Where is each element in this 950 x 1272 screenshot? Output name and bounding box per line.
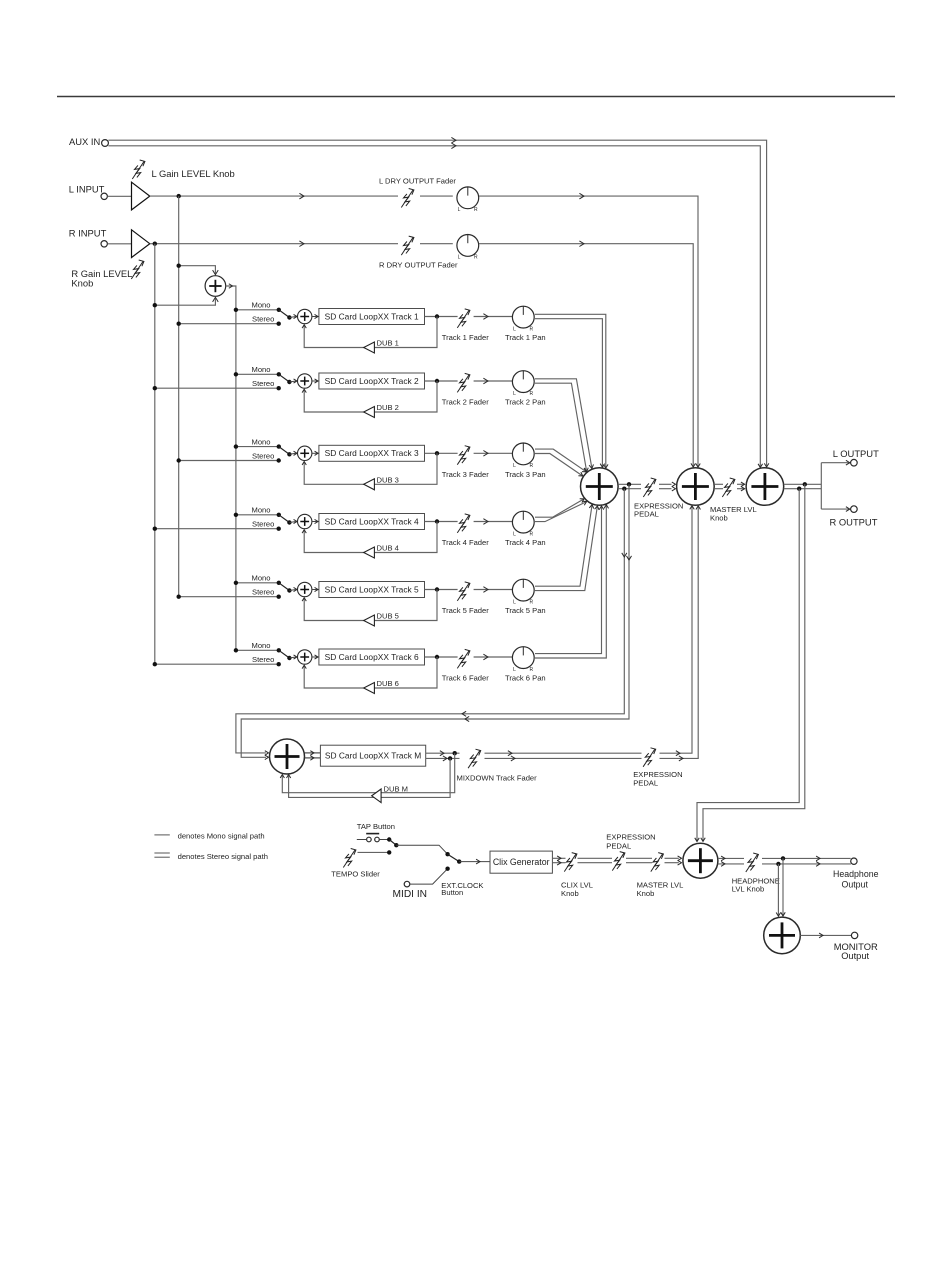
svg-text:Mono: Mono: [252, 365, 271, 374]
node Track 6 Pan label: [505, 674, 546, 683]
flow arrows clix out: [557, 856, 561, 865]
arrowheads pan 2 into U1: [584, 464, 594, 472]
node Stereo label track 3: [252, 451, 274, 460]
arrowheads pan 5 into U1: [589, 504, 599, 510]
junction switch pivot track 5: [287, 588, 291, 592]
junction mixdown out upper: [453, 751, 457, 755]
wire tempo common to clock switch: [396, 845, 447, 854]
flow arrow on L dry line: [299, 193, 304, 199]
switch arm track 3: [279, 447, 290, 455]
svg-text:SD Card LoopXX Track 1: SD Card LoopXX Track 1: [325, 311, 419, 321]
wire fader 5 to pan: [474, 589, 513, 591]
block SD Card LoopXX Track 1: [319, 309, 425, 325]
node Mono label track 2: [252, 365, 271, 374]
arrowhead into box track 6: [315, 655, 318, 659]
flow arrows U4 out: [721, 856, 725, 866]
wire fader 1 to pan: [474, 316, 513, 318]
svg-text:R: R: [530, 599, 534, 605]
junction stereo bus track 3: [177, 458, 181, 462]
svg-text:TEMPO Slider: TEMPO Slider: [331, 870, 380, 879]
svg-text:L: L: [513, 463, 516, 469]
arrowheads DUB M into sum: [280, 775, 291, 778]
contact stereo track 6: [277, 662, 281, 666]
node DUB 4 label: [377, 544, 399, 553]
wire DUB M feedback pair: [282, 753, 454, 797]
summing node U2 dry mix: [677, 468, 715, 506]
switch arm track 5: [279, 583, 290, 591]
node Track 2 Fader label: [442, 398, 489, 407]
junction mono bus track 1: [234, 308, 238, 312]
svg-text:Output: Output: [841, 951, 869, 961]
contact TEMPO: [387, 850, 391, 854]
wire tempo to contact: [358, 851, 390, 853]
wire box 6 to fader: [425, 656, 458, 658]
svg-text:Track 6 Pan: Track 6 Pan: [505, 674, 546, 683]
wire box 2 to fader: [425, 380, 458, 382]
arrowheads into U6 top: [776, 912, 785, 916]
node Stereo label track 4: [252, 520, 274, 529]
wire R dry line: [150, 243, 453, 245]
contact mono track 1: [277, 308, 281, 312]
wire R dry to U2 top: [479, 244, 693, 467]
contact stereo track 5: [277, 595, 281, 599]
svg-text:Output: Output: [842, 879, 869, 889]
flow arrow monitor out: [819, 933, 823, 938]
wire DUB 3 feedback: [304, 453, 437, 484]
wire R bus to mono sum bottom: [155, 299, 216, 306]
junction stereo bus track 4: [153, 527, 157, 531]
pedal EXPRESSION mixdown symbol: [643, 748, 656, 767]
junction main pair upper: [627, 482, 631, 486]
wire pan 1 pair to U1: [535, 314, 606, 468]
summing node U1 track mix: [581, 468, 619, 506]
wire U3 output pair to output split: [784, 463, 851, 509]
wire DUB 2 feedback: [304, 381, 437, 412]
junction headphone lower: [776, 862, 780, 866]
node EXPRESSION PEDAL main label: [634, 501, 683, 518]
arrowhead DUB 2 into sum: [302, 389, 306, 392]
svg-text:Track 1 Pan: Track 1 Pan: [505, 333, 546, 342]
node L OUTPUT label: [833, 448, 879, 459]
arrowheads into U4 left: [678, 856, 682, 865]
node Track 1 Pan label: [505, 333, 546, 342]
node Mono label track 3: [252, 437, 271, 446]
svg-text:MIXDOWN Track Fader: MIXDOWN Track Fader: [457, 773, 538, 782]
contact stereo track 4: [277, 527, 281, 531]
wire L bus to mono sum top: [179, 266, 216, 274]
node Track 4 Fader label: [442, 538, 489, 547]
legend stereo text: [178, 852, 268, 861]
arrowheads pan 3 into U1: [578, 468, 587, 478]
button TAP symbol: [357, 834, 389, 842]
svg-text:Mono: Mono: [252, 641, 271, 650]
wire sum to box track 1: [312, 316, 319, 318]
arrowhead into box track 4: [315, 519, 318, 523]
svg-text:DUB 3: DUB 3: [377, 475, 399, 484]
svg-text:Stereo: Stereo: [252, 520, 274, 529]
wire L bus vertical: [178, 196, 180, 597]
junction box 2 output: [435, 379, 439, 383]
wire mixdown fader to pedal pair: [485, 753, 642, 758]
wire midi to clock switch: [410, 869, 448, 884]
pot L DRY pan: [457, 187, 479, 213]
arrowhead into track sum 6: [294, 655, 297, 659]
svg-text:Knob: Knob: [71, 278, 93, 289]
wire sum to box track 2: [312, 380, 319, 382]
arrowhead into track sum 1: [294, 314, 297, 318]
svg-text:Track 1 Fader: Track 1 Fader: [442, 333, 489, 342]
flow arrow track 1 fader out: [483, 314, 488, 320]
node Track 3 Pan label: [505, 470, 546, 479]
jack MIDI IN: [404, 881, 410, 887]
pot L Gain LEVEL Knob symbol: [132, 160, 145, 179]
node Track 3 Fader label: [442, 470, 489, 479]
wire DUB 6 feedback: [304, 657, 437, 688]
jack L INPUT: [101, 193, 107, 199]
node Track 5 Fader label: [442, 606, 489, 615]
junction box 5 output: [435, 587, 439, 591]
contact mono track 6: [277, 648, 281, 652]
wire pan 6 pair to U1: [535, 505, 606, 658]
wire pan 5 pair to U1: [535, 505, 597, 591]
svg-text:Track 4 Fader: Track 4 Fader: [442, 538, 489, 547]
wire stereo feed track 2: [155, 387, 279, 389]
junction switch pivot track 4: [287, 520, 291, 524]
svg-text:L: L: [513, 391, 516, 397]
junction mono bus track 2: [234, 372, 238, 376]
svg-text:R: R: [474, 207, 478, 213]
jack R INPUT: [101, 241, 107, 247]
junction switch pivot track 2: [287, 380, 291, 384]
wire mono feed track 1: [236, 309, 279, 311]
fader L DRY OUTPUT symbol: [401, 189, 414, 208]
wire clock to clix generator: [459, 861, 490, 863]
node MASTER LVL main label: [710, 505, 757, 523]
svg-text:L DRY OUTPUT Fader: L DRY OUTPUT Fader: [379, 177, 456, 186]
junction mono bus track 3: [234, 444, 238, 448]
jack Headphone Output: [851, 858, 857, 864]
svg-text:AUX IN: AUX IN: [69, 136, 100, 147]
flow arrow track 5 fader out: [483, 587, 488, 593]
wire stereo feed track 3: [179, 460, 279, 462]
wire sum to box track 3: [312, 452, 319, 454]
arrowheads into U4 top: [695, 838, 705, 842]
wire pan 3 pair to U1: [535, 449, 586, 476]
svg-text:PEDAL: PEDAL: [634, 510, 659, 519]
jack AUX IN: [102, 140, 109, 147]
block SD Card LoopXX Track M: [320, 745, 425, 766]
wire fader 2 to pan: [474, 380, 513, 382]
pot CLIX LVL symbol: [564, 853, 577, 872]
junction clock common: [457, 859, 461, 863]
wire pivot to sum track 6: [289, 657, 296, 658]
svg-text:Button: Button: [441, 888, 463, 897]
pot R Gain LEVEL Knob symbol: [131, 260, 144, 279]
svg-text:Track 2 Pan: Track 2 Pan: [505, 398, 546, 407]
svg-text:EXPRESSION: EXPRESSION: [606, 832, 655, 841]
flow arrow L dry after pan: [579, 193, 584, 199]
junction stereo bus track 6: [153, 662, 157, 666]
svg-text:Track 4 Pan: Track 4 Pan: [505, 538, 546, 547]
fader Track 1 symbol: [457, 309, 470, 328]
wire mixdown pair up to U2 bottom: [660, 506, 699, 759]
node AUX IN label: [69, 136, 100, 147]
wire mono feed track 3: [236, 446, 279, 448]
contact internal clock: [445, 852, 449, 856]
junction headphone upper: [781, 856, 785, 860]
amp DUB 1: [364, 342, 375, 353]
arrowheads into master sum U3 top: [758, 463, 769, 467]
wire mono feed track 5: [236, 582, 279, 584]
svg-text:SD Card LoopXX Track 6: SD Card LoopXX Track 6: [325, 652, 419, 662]
node EXPRESSION PEDAL clix label: [606, 832, 655, 850]
amp DUB 3: [364, 479, 375, 490]
node Track 4 Pan label: [505, 538, 546, 547]
junction switch pivot track 1: [287, 315, 291, 319]
arrowhead into L OUTPUT jack: [846, 460, 850, 465]
pot MASTER LVL clix symbol: [651, 853, 664, 872]
node DUB 1 label: [377, 339, 399, 348]
svg-text:L: L: [513, 599, 516, 605]
arrowhead into clix generator: [476, 859, 480, 864]
amp R input gain: [132, 230, 150, 258]
flow arrow R dry after pan: [579, 241, 584, 247]
svg-text:SD Card LoopXX Track 4: SD Card LoopXX Track 4: [325, 516, 419, 526]
summing node U3 master: [746, 468, 784, 506]
svg-text:L: L: [513, 667, 516, 673]
wire sum to box track 6: [312, 656, 319, 658]
svg-text:denotes Stereo signal path: denotes Stereo signal path: [178, 852, 268, 861]
wire U4 out pair: [718, 858, 851, 864]
amp DUB 2: [364, 407, 375, 418]
arrowhead into box track 2: [315, 379, 318, 383]
wire L dry line: [150, 195, 453, 197]
node DUB 6 label: [377, 679, 399, 688]
wire pan 4 pair to U1: [535, 499, 587, 522]
node R OUTPUT label: [830, 517, 878, 528]
junction mono bus track 6: [234, 648, 238, 652]
wire box 5 to fader: [425, 589, 458, 591]
svg-text:SD Card LoopXX Track 3: SD Card LoopXX Track 3: [325, 448, 419, 458]
node MASTER LVL clix label: [637, 881, 684, 898]
svg-text:Track 5 Pan: Track 5 Pan: [505, 606, 546, 615]
junction box 6 output: [435, 655, 439, 659]
summing node U0 L+R mono: [205, 276, 226, 297]
flow arrows mixdown mid pair: [508, 751, 515, 761]
junction switch pivot track 6: [287, 656, 291, 660]
node DUB 5 label: [377, 612, 399, 621]
block SD Card LoopXX Track 4: [319, 514, 425, 530]
arrowhead DUB 4 into sum: [302, 530, 306, 533]
flow arrow mono sum output: [229, 284, 233, 288]
pot Track 2 Pan: [512, 371, 534, 397]
svg-text:L: L: [513, 326, 516, 332]
fader Track 3 symbol: [457, 446, 470, 465]
wire mono feed track 4: [236, 514, 279, 516]
wire clix out pair: [552, 858, 678, 862]
wire box 3 to fader: [425, 452, 458, 454]
node DUB M label: [384, 784, 408, 793]
node Mono label track 1: [252, 301, 271, 310]
svg-text:R DRY OUTPUT Fader: R DRY OUTPUT Fader: [379, 260, 458, 269]
svg-text:L Gain LEVEL Knob: L Gain LEVEL Knob: [152, 168, 235, 179]
svg-text:Stereo: Stereo: [252, 655, 274, 664]
svg-text:Mono: Mono: [252, 506, 271, 515]
node Stereo label track 2: [252, 379, 274, 388]
svg-text:TAP Button: TAP Button: [357, 822, 395, 831]
svg-text:MIDI IN: MIDI IN: [393, 889, 428, 900]
node R Gain LEVEL label: [71, 268, 132, 289]
pot R DRY pan: [457, 235, 479, 261]
wire box 1 to fader: [425, 316, 458, 318]
svg-text:L: L: [513, 531, 516, 537]
summing node track 5: [298, 582, 312, 596]
svg-text:R: R: [530, 531, 534, 537]
pot Track 4 Pan: [512, 511, 534, 537]
svg-text:Clix Generator: Clix Generator: [493, 857, 550, 867]
junction stereo bus track 2: [153, 386, 157, 390]
flow arrows on AUX pair: [451, 137, 456, 148]
summing node track 3: [298, 446, 312, 460]
svg-text:R INPUT: R INPUT: [69, 227, 107, 238]
fader Track 4 symbol: [457, 514, 470, 533]
contact TAP: [387, 837, 391, 841]
node Mono label track 5: [252, 574, 271, 583]
contact mono track 2: [277, 372, 281, 376]
node MIXDOWN Track Fader label: [457, 773, 538, 782]
block SD Card LoopXX Track 2: [319, 373, 425, 389]
flow arrows mixdown to U2: [676, 751, 683, 761]
node DUB 2 label: [377, 403, 399, 412]
arrowheads into U2: [672, 482, 676, 491]
arrowhead into mono sum top: [213, 270, 219, 275]
arrowheads pan 6 into U1: [599, 505, 608, 510]
switch arm tap/tempo: [389, 840, 396, 846]
legend stereo lines: [154, 853, 169, 857]
pot MASTER LVL main symbol: [722, 478, 735, 497]
switch arm ext clock: [448, 854, 460, 861]
wire stereo feed track 4: [155, 528, 279, 530]
node EXPRESSION PEDAL mixdown label: [633, 770, 682, 787]
arrowhead L dry into U2: [696, 464, 700, 468]
block SD Card LoopXX Track 3: [319, 445, 425, 461]
wire stereo feed track 6: [155, 663, 279, 665]
arrowheads into U2 bottom: [690, 506, 701, 510]
arrowhead DUB 3 into sum: [302, 462, 306, 465]
wire L dry to U2 top: [479, 196, 698, 467]
jack R OUTPUT: [851, 506, 858, 513]
wire pivot to sum track 5: [289, 590, 296, 591]
junction L bus at mono sum feed: [177, 264, 181, 268]
svg-text:Track 2 Fader: Track 2 Fader: [442, 398, 489, 407]
pot Track 5 Pan: [512, 579, 534, 605]
node CLIX LVL Knob label: [561, 881, 593, 898]
wire DUB 4 feedback: [304, 522, 437, 553]
wire mixdown sum to box pair: [305, 753, 321, 758]
svg-text:L OUTPUT: L OUTPUT: [833, 448, 879, 459]
junction switch pivot track 3: [287, 452, 291, 456]
flow arrows headphone out: [816, 856, 820, 866]
amp L input gain: [132, 182, 150, 210]
switch arm track 6: [279, 650, 290, 658]
wire box 4 to fader: [425, 521, 458, 523]
node Stereo label track 5: [252, 588, 274, 597]
arrowhead DUB 1 into sum: [302, 325, 306, 328]
legend mono line: [154, 834, 169, 836]
wire U1 out pair down-left to mixdown sum: [236, 484, 629, 757]
svg-text:R: R: [530, 463, 534, 469]
amp DUB 5: [364, 615, 375, 626]
wire pivot to sum track 2: [289, 381, 296, 382]
arrowhead into track sum 3: [294, 451, 297, 455]
node Track 6 Fader label: [442, 674, 489, 683]
block Clix Generator: [490, 851, 552, 873]
svg-text:Stereo: Stereo: [252, 379, 274, 388]
svg-text:Track 3 Pan: Track 3 Pan: [505, 470, 546, 479]
junction tap/tempo common: [394, 843, 398, 847]
junction mixdown out lower: [448, 756, 452, 760]
svg-text:Stereo: Stereo: [252, 315, 274, 324]
fader MIXDOWN Track symbol: [468, 749, 481, 768]
junction R bus at mono sum feed: [153, 303, 157, 307]
node Mono label track 4: [252, 506, 271, 515]
pot Track 1 Pan: [512, 306, 534, 332]
svg-text:denotes Mono signal path: denotes Mono signal path: [178, 831, 265, 840]
svg-text:Knob: Knob: [637, 889, 655, 898]
switch arm track 2: [279, 374, 290, 382]
node MONITOR Output label: [834, 941, 878, 961]
svg-text:SD Card LoopXX Track 5: SD Card LoopXX Track 5: [325, 584, 419, 594]
summing node track 4: [298, 514, 312, 528]
arrowhead DUB 5 into sum: [302, 598, 306, 601]
svg-text:Knob: Knob: [710, 514, 728, 523]
svg-text:PEDAL: PEDAL: [633, 778, 658, 787]
block SD Card LoopXX Track 5: [319, 582, 425, 598]
svg-text:Mono: Mono: [252, 574, 271, 583]
arrowhead R dry into U2: [691, 463, 695, 467]
svg-text:Stereo: Stereo: [252, 451, 274, 460]
node L DRY OUTPUT Fader label: [379, 177, 456, 186]
arrowhead into R OUTPUT jack: [846, 507, 850, 512]
arrowhead into mono sum bottom: [213, 297, 219, 302]
contact mono track 4: [277, 513, 281, 517]
wire pivot to sum track 4: [289, 522, 296, 523]
fader Track 5 symbol: [457, 582, 470, 601]
node Track 1 Fader label: [442, 333, 489, 342]
flow arrows mixdown box out: [440, 751, 447, 761]
junction box 3 output: [435, 451, 439, 455]
junction R amp output: [153, 242, 157, 246]
pot Track 3 Pan: [512, 443, 534, 469]
junction U3 out lower: [797, 487, 801, 491]
wire DUB 1 feedback: [304, 317, 437, 348]
wire L input jack to amp: [107, 195, 131, 197]
svg-text:PEDAL: PEDAL: [606, 841, 631, 850]
jack MONITOR Output: [851, 932, 857, 938]
summing node U4 headphone: [683, 843, 718, 878]
wire mixdown box out pair: [426, 753, 460, 758]
contact stereo track 3: [277, 458, 281, 462]
svg-text:L INPUT: L INPUT: [69, 183, 105, 194]
svg-text:SD Card LoopXX Track M: SD Card LoopXX Track M: [325, 751, 421, 761]
svg-text:L: L: [458, 255, 461, 261]
junction mono bus track 4: [234, 513, 238, 517]
junction box 4 output: [435, 519, 439, 523]
fader Track 6 symbol: [457, 649, 470, 668]
flow arrow on R dry line: [299, 241, 304, 247]
pedal EXPRESSION main symbol: [643, 478, 656, 497]
junction stereo bus track 5: [177, 595, 181, 599]
